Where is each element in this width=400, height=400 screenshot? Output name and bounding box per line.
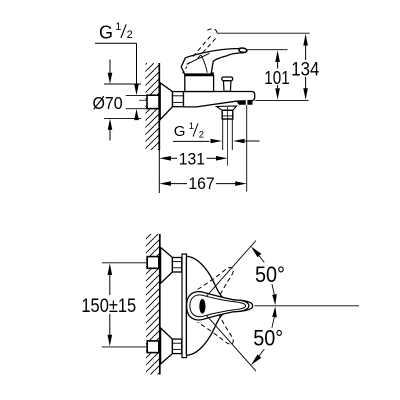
svg-text:2: 2 <box>127 29 133 41</box>
svg-text:1: 1 <box>189 121 194 132</box>
svg-text:167: 167 <box>188 174 214 193</box>
svg-text:G: G <box>99 23 113 43</box>
svg-text:150±15: 150±15 <box>81 295 136 317</box>
svg-text:101: 101 <box>264 67 289 88</box>
svg-text:1: 1 <box>115 21 121 33</box>
svg-text:131: 131 <box>179 149 205 168</box>
svg-text:G: G <box>174 123 186 140</box>
svg-text:2: 2 <box>199 129 204 140</box>
svg-text:134: 134 <box>291 59 319 81</box>
svg-text:50°: 50° <box>253 326 283 351</box>
svg-text:50°: 50° <box>255 262 285 287</box>
svg-text:Ø70: Ø70 <box>93 93 123 113</box>
